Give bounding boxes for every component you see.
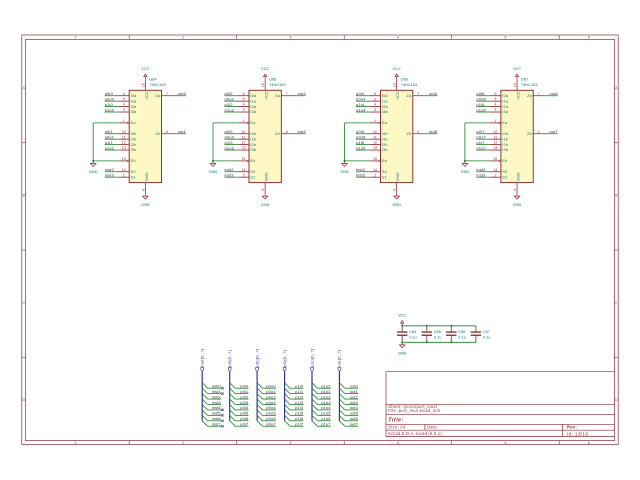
no-connect flag inst0 <box>221 387 223 389</box>
svg-text:I1b: I1b <box>131 136 137 141</box>
bus entry p1o1 <box>312 388 317 393</box>
svg-text:I1b: I1b <box>502 136 508 141</box>
bus entry p0o3 <box>257 399 262 404</box>
svg-text:16: 16 <box>261 83 265 87</box>
svg-text:p0i7: p0i7 <box>240 422 249 427</box>
svg-text:p0o7: p0o7 <box>476 134 486 139</box>
svg-text:3: 3 <box>374 108 376 112</box>
wire out0 from U64 pin 7 <box>172 95 186 97</box>
capacitor C64 <box>397 326 407 343</box>
svg-text:out5: out5 <box>429 129 438 134</box>
wire p0i3 <box>235 403 248 405</box>
wire p0o0 to U64 pin 5 <box>105 100 119 102</box>
bus entry inst5 <box>202 410 207 415</box>
wire p1o2 to U65 pin 3 <box>225 111 239 113</box>
wire p0i6 to U67 pin 6 <box>476 95 490 97</box>
frame row divider C (left) <box>22 249 26 251</box>
wire p1i2 <box>290 398 303 400</box>
wire p0i1 <box>235 393 248 395</box>
svg-text:15: 15 <box>373 157 377 161</box>
svg-text:S0: S0 <box>382 169 388 174</box>
wire inst2 to U65 pin 14 <box>225 171 239 173</box>
wire inst3 to U65 pin 2 <box>225 176 239 178</box>
wire out2 <box>345 398 358 400</box>
svg-text:I2a: I2a <box>131 104 138 109</box>
bus entry out4 <box>339 404 344 409</box>
svg-text:I1a: I1a <box>250 98 257 103</box>
wire p1o2 <box>317 398 330 400</box>
svg-text:13: 13 <box>242 146 246 150</box>
svg-text:p1i4: p1i4 <box>295 405 304 410</box>
U67 pin 4 (I2a) <box>490 106 501 108</box>
bus entry p0o0 <box>257 383 262 388</box>
svg-text:2: 2 <box>494 173 496 177</box>
svg-text:S1: S1 <box>502 174 507 179</box>
svg-text:Id: 13/16: Id: 13/16 <box>567 431 588 437</box>
svg-text:p0i5: p0i5 <box>240 411 249 416</box>
bus entry p0o1 <box>257 388 262 393</box>
svg-text:p0o4: p0o4 <box>356 96 366 101</box>
svg-text:I3b: I3b <box>382 147 388 152</box>
svg-text:p0i4: p0i4 <box>356 91 365 96</box>
U64 pin 10 (I0b) <box>118 133 129 135</box>
wire inst2 <box>208 398 221 400</box>
svg-text:I1a: I1a <box>382 98 389 103</box>
junction U66 enable ground tie <box>344 160 346 162</box>
svg-text:out2: out2 <box>297 91 306 96</box>
svg-text:p0o5: p0o5 <box>356 134 366 139</box>
U65 pin 16 (VCC) <box>264 79 266 90</box>
junction C65 bottom <box>426 341 428 343</box>
wire p0i5 <box>235 414 248 416</box>
power symbol GND (U67 enable tie) <box>462 161 468 167</box>
U66 pin 12 (I2b) <box>370 144 381 146</box>
bus entry p1o5 <box>312 410 317 415</box>
wire inst3 to U66 pin 2 <box>356 176 370 178</box>
U66 pin 8 (GND) <box>396 183 398 194</box>
frame column divider 3 (top) <box>236 35 238 39</box>
svg-text:74HC153: 74HC153 <box>269 82 285 87</box>
IC U65 74HC153 multiplexer body <box>249 90 281 182</box>
svg-text:13: 13 <box>493 146 497 150</box>
svg-text:16: 16 <box>141 83 145 87</box>
bus entry p0i7 <box>230 421 235 426</box>
wire p1o7 <box>317 425 330 427</box>
svg-text:4: 4 <box>397 36 399 40</box>
wire inst4 <box>208 409 221 411</box>
svg-text:3: 3 <box>494 108 496 112</box>
U67 pin 13 (I3b) <box>490 149 501 151</box>
bus p0o[0..7] vertical line <box>256 371 258 420</box>
svg-text:I3b: I3b <box>250 147 256 152</box>
svg-text:I0b: I0b <box>502 131 508 136</box>
svg-text:out4: out4 <box>429 91 438 96</box>
junction C66 bottom <box>450 341 452 343</box>
svg-text:6: 6 <box>494 92 496 96</box>
svg-text:74HC153: 74HC153 <box>401 82 417 87</box>
wire p0i6 <box>235 420 248 422</box>
U65 pin 12 (I2b) <box>238 144 249 146</box>
bus entry out7 <box>339 421 344 426</box>
svg-text:inst3: inst3 <box>356 172 366 177</box>
wire p0i3 to U65 pin 10 <box>225 133 239 135</box>
bus entry p0i0 <box>230 383 235 388</box>
svg-text:VCC: VCC <box>144 91 149 99</box>
svg-text:Eb: Eb <box>250 158 255 163</box>
svg-text:p1o6: p1o6 <box>321 416 331 421</box>
bus entry p1o4 <box>312 404 317 409</box>
bus entry p1o7 <box>312 421 317 426</box>
wire out5 <box>345 414 358 416</box>
no-connect flag inst1 <box>221 392 223 394</box>
svg-text:3: 3 <box>289 36 291 40</box>
bus entry out3 <box>339 399 344 404</box>
U65 pin 14 (S0) <box>238 171 249 173</box>
U67 pin 1 (Ea) <box>490 122 499 124</box>
wire p1i4 to U66 pin 4 <box>356 106 370 108</box>
bus entry inst2 <box>202 394 207 399</box>
U67 pin 5 (I1a) <box>490 100 501 102</box>
power symbol GND (U65 enable tie) <box>210 161 216 167</box>
svg-text:I2a: I2a <box>502 104 509 109</box>
svg-text:1: 1 <box>243 119 245 123</box>
wire inst1 <box>208 393 221 395</box>
wire p1o7 to U67 pin 13 <box>476 149 490 151</box>
svg-text:8: 8 <box>393 189 397 191</box>
svg-text:p1i5: p1i5 <box>356 140 365 145</box>
svg-text:1: 1 <box>123 119 125 123</box>
svg-text:4: 4 <box>494 103 496 107</box>
svg-text:p0o0: p0o0 <box>266 384 276 389</box>
svg-text:p0i1: p0i1 <box>240 389 249 394</box>
svg-text:14: 14 <box>242 168 246 172</box>
frame row divider B (left) <box>22 142 26 144</box>
U65 pin 7 (Za) <box>281 95 292 97</box>
svg-text:I2b: I2b <box>250 142 256 147</box>
wire p0i2 to U65 pin 6 <box>225 95 239 97</box>
frame column divider 4 (bottom) <box>343 441 345 445</box>
svg-text:p1o0: p1o0 <box>105 107 115 112</box>
svg-text:p1o3: p1o3 <box>225 145 235 150</box>
bus entry p0i5 <box>230 410 235 415</box>
svg-text:8: 8 <box>141 189 145 191</box>
svg-text:U66: U66 <box>401 77 408 82</box>
svg-text:10: 10 <box>242 130 246 134</box>
svg-text:2: 2 <box>123 173 125 177</box>
svg-text:Zb: Zb <box>275 131 280 136</box>
svg-text:11: 11 <box>494 135 498 139</box>
svg-text:p1o7: p1o7 <box>476 145 486 150</box>
frame row divider C (right) <box>614 249 618 251</box>
svg-text:11: 11 <box>122 135 126 139</box>
svg-text:7: 7 <box>166 92 168 96</box>
wire U65 Eb to ground rail <box>213 160 238 162</box>
svg-text:out4: out4 <box>350 405 359 410</box>
svg-text:4: 4 <box>123 103 125 107</box>
svg-text:16: 16 <box>513 83 517 87</box>
svg-text:inst3: inst3 <box>225 172 235 177</box>
svg-text:inst3: inst3 <box>212 400 222 405</box>
frame row divider D (right) <box>614 357 618 359</box>
power symbol VCC (U64) <box>144 74 147 79</box>
svg-text:I2a: I2a <box>250 104 257 109</box>
bus entry p1i3 <box>285 399 290 404</box>
svg-text:p0i2: p0i2 <box>225 91 234 96</box>
svg-text:Ea: Ea <box>502 120 508 125</box>
power symbol VCC (U65) <box>264 74 267 79</box>
bus entry p1o0 <box>312 383 317 388</box>
U67 pin 7 (Za) <box>533 95 544 97</box>
bus entry out2 <box>339 394 344 399</box>
svg-text:GND: GND <box>261 202 270 207</box>
power symbol GND (U64 enable tie) <box>90 161 96 167</box>
bus entry out6 <box>339 415 344 420</box>
svg-text:7: 7 <box>286 92 288 96</box>
svg-text:8: 8 <box>513 189 517 191</box>
no-connect flag inst7 <box>221 425 223 427</box>
svg-text:p1o2: p1o2 <box>225 107 235 112</box>
svg-text:GND: GND <box>264 172 269 181</box>
U64 pin 15 (Eb) <box>118 160 127 162</box>
wire out3 from U65 pin 9 <box>292 133 306 135</box>
svg-text:p1i1: p1i1 <box>295 389 304 394</box>
U65 pin 3 (I3a) <box>238 111 249 113</box>
svg-text:inst2: inst2 <box>225 167 235 172</box>
U66 pin 6 (I0a) <box>370 95 381 97</box>
svg-text:C67: C67 <box>483 329 490 334</box>
svg-text:VCC: VCC <box>513 66 521 71</box>
svg-text:p1o6: p1o6 <box>476 107 486 112</box>
U67 pin 8 (GND) <box>516 183 518 194</box>
frame column divider 6 (top) <box>558 35 560 39</box>
svg-text:p0o[0..7]: p0o[0..7] <box>254 349 259 367</box>
hierarchical label p0o[0..7] <box>256 368 259 372</box>
U64 pin 9 (Zb) <box>162 133 173 135</box>
bus p1o[0..7] vertical line <box>311 371 313 420</box>
svg-text:Zb: Zb <box>407 131 412 136</box>
U64 pin 6 (I0a) <box>118 95 129 97</box>
svg-text:p0i1: p0i1 <box>105 129 114 134</box>
U65 pin 13 (I3b) <box>238 149 249 151</box>
wire U65 ground rail vertical <box>212 123 214 161</box>
U64 pin 8 (GND) <box>144 183 146 194</box>
svg-text:out6: out6 <box>549 91 558 96</box>
wire p0i4 to U66 pin 6 <box>356 95 370 97</box>
svg-text:p0o0: p0o0 <box>105 96 115 101</box>
svg-text:9: 9 <box>166 130 168 134</box>
svg-text:1: 1 <box>75 441 77 445</box>
svg-text:VCC: VCC <box>393 66 401 71</box>
svg-text:out[0..7]: out[0..7] <box>337 350 342 367</box>
wire p1i6 to U67 pin 4 <box>476 106 490 108</box>
wire out7 <box>345 425 358 427</box>
no-connect flag inst6 <box>221 420 223 422</box>
svg-text:I2b: I2b <box>382 142 388 147</box>
frame row divider D (left) <box>22 357 26 359</box>
svg-text:GND: GND <box>513 202 522 207</box>
U65 pin 10 (I0b) <box>238 133 249 135</box>
svg-text:C64: C64 <box>409 329 417 334</box>
svg-text:p1o7: p1o7 <box>321 422 331 427</box>
svg-text:p1i0: p1i0 <box>295 384 304 389</box>
bus entry p0o2 <box>257 394 262 399</box>
svg-text:4: 4 <box>397 441 399 445</box>
svg-text:inst6: inst6 <box>212 416 222 421</box>
svg-text:Zb: Zb <box>155 131 160 136</box>
svg-text:p1i3: p1i3 <box>295 400 304 405</box>
frame column divider 3 (bottom) <box>236 441 238 445</box>
no-connect flag inst4 <box>221 409 223 411</box>
svg-text:1: 1 <box>374 119 376 123</box>
wire p1i5 <box>290 414 303 416</box>
svg-text:S1: S1 <box>250 174 255 179</box>
wire p0o4 to U66 pin 5 <box>356 100 370 102</box>
svg-text:9: 9 <box>417 130 419 134</box>
svg-text:Za: Za <box>155 93 161 98</box>
frame column divider 5 (top) <box>451 35 453 39</box>
svg-text:p0i3: p0i3 <box>240 400 249 405</box>
svg-text:p1o[0..7]: p1o[0..7] <box>309 349 314 367</box>
power symbol GND (U65) <box>262 194 268 200</box>
svg-text:p1i6: p1i6 <box>295 416 304 421</box>
wire out0 <box>345 387 358 389</box>
svg-text:p0i3: p0i3 <box>225 129 234 134</box>
wire p1i2 to U65 pin 4 <box>225 106 239 108</box>
U67 pin 6 (I0a) <box>490 95 501 97</box>
svg-text:p0i7: p0i7 <box>476 129 485 134</box>
wire p0i7 <box>235 425 248 427</box>
svg-text:GND: GND <box>141 202 150 207</box>
svg-text:I1b: I1b <box>250 136 256 141</box>
svg-text:p1o2: p1o2 <box>321 394 331 399</box>
svg-text:p0i0: p0i0 <box>105 91 114 96</box>
svg-text:p0i5: p0i5 <box>356 129 365 134</box>
svg-text:4: 4 <box>374 103 376 107</box>
bus entry p1o3 <box>312 399 317 404</box>
svg-text:p0o5: p0o5 <box>266 411 276 416</box>
wire p1o6 to U67 pin 3 <box>476 111 490 113</box>
svg-text:16: 16 <box>393 83 397 87</box>
svg-text:p0i6: p0i6 <box>240 416 249 421</box>
frame column divider 5 (bottom) <box>451 441 453 445</box>
wire p1i0 to U64 pin 4 <box>105 106 119 108</box>
svg-text:3: 3 <box>243 108 245 112</box>
bus out[0..7] vertical line <box>338 371 340 420</box>
bus entry p0o6 <box>257 415 262 420</box>
svg-text:out3: out3 <box>350 400 359 405</box>
svg-text:I2a: I2a <box>382 104 389 109</box>
svg-text:12: 12 <box>242 141 246 145</box>
svg-text:GND: GND <box>89 169 98 174</box>
svg-text:I3a: I3a <box>250 109 257 114</box>
wire p0o2 <box>263 398 276 400</box>
bus p0i[0..7] vertical line <box>229 371 231 420</box>
U67 pin 11 (I1b) <box>490 138 501 140</box>
svg-text:p1o5: p1o5 <box>356 145 366 150</box>
bus entry out1 <box>339 388 344 393</box>
wire p1i1 to U64 pin 12 <box>105 144 119 146</box>
svg-text:12: 12 <box>122 141 126 145</box>
svg-text:Size: A4: Size: A4 <box>388 425 406 430</box>
svg-text:1: 1 <box>494 119 496 123</box>
svg-text:inst3: inst3 <box>105 172 115 177</box>
frame column divider 2 (top) <box>128 35 130 39</box>
svg-text:out0: out0 <box>178 91 187 96</box>
svg-text:I0a: I0a <box>382 93 389 98</box>
svg-text:inst1: inst1 <box>212 389 222 394</box>
svg-text:I3a: I3a <box>382 109 389 114</box>
U66 pin 3 (I3a) <box>370 111 381 113</box>
U66 pin 14 (S0) <box>370 171 381 173</box>
wire p0o3 to U65 pin 11 <box>225 138 239 140</box>
U64 pin 11 (I1b) <box>118 138 129 140</box>
svg-text:5: 5 <box>504 441 506 445</box>
svg-text:8: 8 <box>261 189 265 191</box>
no-connect flag inst5 <box>221 414 223 416</box>
junction GND stem / C64 bottom <box>401 341 403 343</box>
bus entry out0 <box>339 383 344 388</box>
frame column divider 2 (bottom) <box>128 441 130 445</box>
bus entry p1i0 <box>285 383 290 388</box>
wire inst2 to U64 pin 14 <box>105 171 119 173</box>
wire p1o3 <box>317 403 330 405</box>
svg-text:p0o2: p0o2 <box>225 96 235 101</box>
bus entry p0o7 <box>257 421 262 426</box>
wire GND rail (capacitor bottom rail) <box>402 341 476 343</box>
wire p0i0 <box>235 387 248 389</box>
capacitor C65 <box>422 326 432 343</box>
U67 pin 12 (I2b) <box>490 144 501 146</box>
svg-text:0.1u: 0.1u <box>483 335 491 340</box>
U65 pin 15 (Eb) <box>238 160 247 162</box>
svg-text:GND: GND <box>340 169 349 174</box>
wire p1o0 <box>317 387 330 389</box>
U67 pin 9 (Zb) <box>533 133 544 135</box>
wire p0i2 <box>235 398 248 400</box>
svg-text:I1b: I1b <box>382 136 388 141</box>
bus entry p1o6 <box>312 415 317 420</box>
wire U66 ground rail vertical <box>344 123 346 161</box>
svg-text:inst7: inst7 <box>212 422 222 427</box>
svg-text:p1o4: p1o4 <box>356 107 366 112</box>
U65 pin 9 (Zb) <box>281 133 292 135</box>
wire out1 <box>345 393 358 395</box>
svg-text:I2b: I2b <box>131 142 137 147</box>
svg-text:U67: U67 <box>521 77 528 82</box>
wire p0o5 <box>263 414 276 416</box>
wire out5 from U66 pin 9 <box>424 133 438 135</box>
power symbol VCC (U67) <box>515 74 518 79</box>
svg-text:S1: S1 <box>382 174 387 179</box>
svg-text:15: 15 <box>493 157 497 161</box>
svg-text:I0a: I0a <box>131 93 138 98</box>
bus entry p0o4 <box>257 404 262 409</box>
frame column divider 6 (bottom) <box>558 441 560 445</box>
hierarchical label out[0..7] <box>338 368 341 372</box>
wire inst0 <box>208 387 221 389</box>
wire p1i5 to U66 pin 12 <box>356 144 370 146</box>
bus inst[0..7] vertical line <box>201 371 203 420</box>
svg-text:2: 2 <box>182 441 184 445</box>
U64 pin 1 (Ea) <box>118 122 127 124</box>
svg-text:inst4: inst4 <box>212 405 222 410</box>
IC U67 74HC153 multiplexer body <box>501 90 533 182</box>
bus entry inst0 <box>202 383 207 388</box>
bus entry p0o5 <box>257 410 262 415</box>
power symbol GND (decoupling rail) <box>399 342 405 348</box>
U64 pin 5 (I1a) <box>118 100 129 102</box>
svg-text:2: 2 <box>182 36 184 40</box>
